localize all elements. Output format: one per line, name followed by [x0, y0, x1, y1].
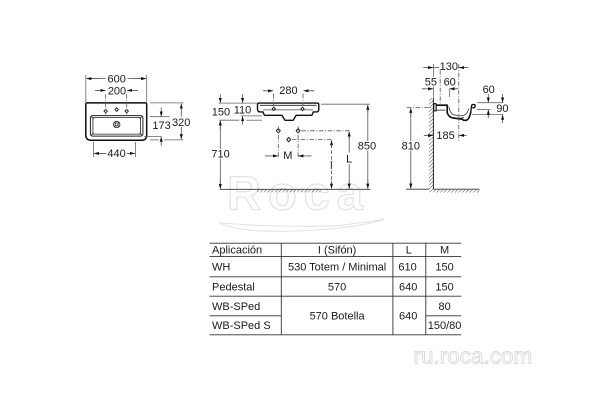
lip ledge extension line: [477, 109, 491, 111]
dim 710 line with arrows: [219, 120, 221, 129]
deck fixing hole left: [272, 107, 275, 110]
basin profile: bowl bottom inner arc: [453, 116, 464, 119]
dim 173 bottom reference line: [144, 136, 162, 138]
dim 440 extension lines: [93, 142, 135, 157]
dim 850 line with arrows: [367, 105, 369, 114]
basin front elevation outline: [258, 103, 319, 120]
deck fixing hole right: [301, 107, 304, 110]
table horizontal rules: [210, 243, 462, 335]
svg-text:I (Sifón): I (Sifón): [318, 245, 357, 257]
dim 60 reference drop line: [448, 89, 450, 97]
dim 320 top extension: [150, 102, 184, 104]
drain level dash-dot horizontal: [292, 139, 332, 141]
svg-text:150: 150: [435, 262, 453, 274]
dim 600 extension lines: [86, 75, 147, 102]
dim 320 line with arrows: [180, 104, 182, 117]
faucet hole centrelines (dash-dot): [106, 94, 127, 114]
dim 440 line with arrows: [94, 152, 106, 154]
dim 320 bottom extension: [150, 139, 159, 141]
svg-text:640: 640: [399, 310, 417, 322]
flange bottom extension line (150): [219, 119, 239, 121]
svg-text:WB-SPed S: WB-SPed S: [212, 320, 271, 332]
dim 185 arrows (outside): [425, 134, 427, 136]
faucet hole centre: [115, 108, 118, 112]
svg-text:320: 320: [172, 117, 190, 129]
supply centreline left (dash-dot vertical): [277, 126, 279, 157]
rim bottom extension line (110): [241, 115, 262, 117]
table vertical rules: [281, 243, 426, 335]
bowl outer rim: [90, 116, 142, 137]
TABLE GROUP: [210, 243, 462, 335]
dim 280 arrows (outside): [264, 90, 267, 92]
floor line under middle view: [220, 188, 370, 190]
wall face line: [432, 98, 434, 189]
svg-text:WH: WH: [212, 262, 230, 274]
svg-text:440: 440: [107, 148, 125, 160]
bowl corner ticks: [91, 116, 142, 135]
svg-text:ru.roca.com: ru.roca.com: [414, 344, 533, 369]
dim 810 top dash-dot reference: [407, 106, 434, 108]
dim 280 extension dash-dot lines: [274, 94, 303, 106]
dim 130 arrows (outside): [425, 67, 427, 69]
svg-text:60: 60: [444, 76, 456, 88]
supply pipe node left: [276, 129, 280, 133]
svg-text:55: 55: [425, 76, 437, 88]
wall hatch strip: [429, 98, 434, 192]
dim 130 line segments: [433, 67, 439, 69]
basin profile: front lip: [471, 105, 475, 113]
dim 600 line with arrows: [128, 78, 146, 80]
supply level dash-dot horizontal: [302, 130, 351, 132]
dim L line with arrows: [348, 131, 350, 140]
basin profile: mounting tab: [434, 104, 436, 111]
basin profile: bowl outer bottom: [447, 112, 471, 120]
basin profile: deck top: [436, 104, 447, 106]
dim 850 top extension: [321, 103, 370, 105]
basin deck front edge line: [263, 109, 313, 111]
svg-text:610: 610: [398, 262, 416, 274]
dim 90 top arrow: [502, 94, 504, 103]
dim 810 line with arrows: [410, 108, 412, 117]
svg-text:Roca: Roca: [227, 167, 370, 220]
dim 60 (depth) bottom arrow: [487, 110, 489, 118]
dim 90 bottom arrow: [502, 115, 504, 123]
basin rim inner line: [260, 104, 317, 106]
svg-text:150: 150: [435, 281, 453, 293]
svg-text:570 Botella: 570 Botella: [310, 310, 366, 322]
floor hatch strip right of wall: [433, 190, 479, 193]
basin profile: deck underside line: [436, 109, 445, 111]
dim 173 arrows: [160, 108, 162, 117]
dim 110 top arrow: [242, 94, 244, 103]
svg-text:80: 80: [438, 301, 450, 313]
svg-text:640: 640: [399, 281, 417, 293]
drain symbol: [114, 121, 120, 127]
svg-text:M: M: [440, 245, 449, 257]
svg-text:173: 173: [152, 120, 170, 132]
faucet hole left: [104, 109, 107, 113]
floor hatch strip: [257, 190, 321, 193]
fixing bolt dash-dot vertical: [439, 70, 441, 104]
svg-text:60: 60: [483, 84, 495, 96]
svg-text:Aplicación: Aplicación: [212, 245, 262, 257]
floor line right of wall: [433, 188, 479, 190]
FRONT VIEW GROUP: [86, 73, 191, 160]
svg-text:M: M: [283, 150, 292, 162]
svg-text:600: 600: [108, 73, 126, 85]
dim 110 bottom arrow: [242, 116, 244, 125]
basin profile: bowl back step: [446, 105, 448, 114]
dim 200 arrows (outside): [96, 89, 98, 91]
svg-text:130: 130: [440, 61, 458, 73]
svg-text:L: L: [346, 154, 352, 166]
top rim extension line (left): [219, 102, 257, 104]
svg-text:810: 810: [402, 140, 420, 152]
MIDDLE VIEW GROUP: [211, 85, 376, 192]
dim 173 top reference line: [150, 116, 170, 118]
svg-text:150: 150: [212, 107, 230, 119]
dim 150 top arrow: [219, 94, 221, 103]
front bottom extension line: [472, 114, 504, 116]
dim 60 arrow (wall fixing): [455, 88, 457, 90]
drain node: [287, 137, 291, 141]
floor line left of wall: [406, 188, 429, 190]
dim 55 arrow: [423, 88, 425, 90]
dim M arrows (outside): [266, 155, 268, 157]
watermark Roca swoosh: [219, 220, 384, 232]
svg-text:150/80: 150/80: [428, 320, 462, 332]
svg-text:570: 570: [328, 281, 346, 293]
supply centreline right (dash-dot vertical): [297, 126, 299, 157]
basin outline (top view): [86, 103, 147, 140]
svg-text:110: 110: [234, 105, 252, 117]
rim top extension line (right): [477, 102, 503, 104]
bowl inner rim: [93, 118, 141, 135]
basin profile: bowl inner line: [449, 107, 469, 116]
faucet hole right: [125, 109, 128, 113]
drain centreline dash-dot vertical: [458, 64, 460, 142]
svg-text:200: 200: [108, 85, 126, 97]
svg-text:Pedestal: Pedestal: [212, 281, 255, 293]
svg-text:L: L: [406, 245, 412, 257]
dim 440 text: [106, 148, 127, 158]
supply pipe node right: [296, 129, 300, 133]
svg-text:710: 710: [211, 148, 229, 160]
svg-text:850: 850: [358, 140, 376, 152]
svg-text:l: l: [330, 160, 332, 172]
svg-text:280: 280: [279, 85, 297, 97]
dim l dashed line with arrows: [331, 140, 333, 148]
dim 130 left extension (broken at 55 text): [432, 64, 434, 77]
svg-text:WB-SPed: WB-SPed: [212, 301, 260, 313]
svg-text:530 Totem / Minimal: 530 Totem / Minimal: [288, 262, 386, 274]
dim 600 text: [107, 73, 128, 83]
svg-text:185: 185: [436, 130, 454, 142]
SIDE VIEW GROUP: [402, 61, 509, 193]
svg-text:90: 90: [496, 103, 508, 115]
dim 60 (depth) top arrow: [487, 94, 489, 103]
